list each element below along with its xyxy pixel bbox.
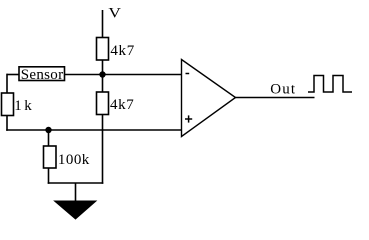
wire V to R1 bbox=[102, 10, 104, 38]
svg-text:Out: Out bbox=[270, 81, 296, 97]
pin minus bbox=[186, 73, 190, 75]
resistor R4 body (100k) bbox=[44, 146, 57, 168]
node A junction dot bbox=[99, 71, 105, 77]
resistor R1 body bbox=[97, 38, 109, 61]
wire sensor left to rail bbox=[7, 74, 20, 76]
wire ground stem bbox=[75, 183, 77, 202]
resistor R3 body (4k7 lower) bbox=[97, 92, 109, 115]
svg-text:4k7: 4k7 bbox=[110, 97, 134, 113]
pin plus bbox=[185, 118, 192, 120]
svg-text:V: V bbox=[108, 6, 121, 22]
square wave output waveform bbox=[308, 76, 352, 93]
wire op-amp output bbox=[236, 97, 315, 99]
wire node A row to op-amp minus input bbox=[65, 74, 182, 76]
wire node B to 100k bbox=[48, 130, 50, 146]
svg-text:Sensor: Sensor bbox=[21, 67, 63, 83]
wire left rail down to 1k bbox=[6, 74, 8, 93]
wire node A to R3 bbox=[102, 75, 104, 93]
wire 1k to plus row bbox=[6, 116, 8, 131]
ground bbox=[55, 201, 97, 219]
wire bottom rail bbox=[48, 182, 104, 184]
op-amp U1 bbox=[182, 60, 236, 137]
wire R3 down to bottom rail bbox=[102, 115, 104, 184]
wire 100k to bottom rail bbox=[48, 168, 50, 184]
wire plus row to op-amp plus input bbox=[6, 129, 181, 131]
wire R1 to node A bbox=[102, 60, 104, 76]
resistor R2 body (1k) bbox=[2, 93, 14, 116]
svg-text:100k: 100k bbox=[58, 152, 90, 168]
svg-text:4k7: 4k7 bbox=[110, 43, 134, 59]
sensor block bbox=[19, 67, 65, 81]
node B junction dot bbox=[45, 127, 51, 133]
